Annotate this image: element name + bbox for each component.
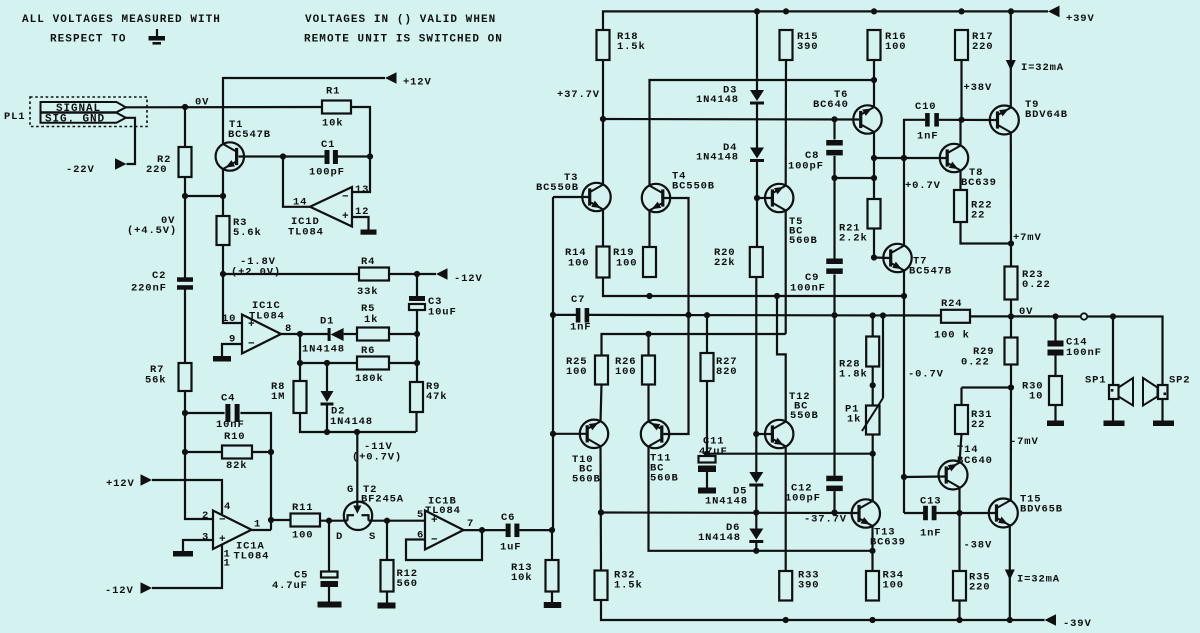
wire R31 to T14 [960, 434, 962, 463]
resistor R30 10 [1022, 376, 1062, 405]
wire C8 row to T6 coll rail [835, 177, 875, 179]
resistor R34 100 [866, 570, 904, 601]
svg-text:−: − [248, 338, 255, 350]
resistor R9 47k [410, 381, 447, 412]
node rail/T9 [1008, 8, 1014, 14]
wire T8 emitter to R22 [959, 170, 961, 190]
diode D6 1N4148 [698, 522, 763, 544]
resistor R18 1.5k [597, 30, 646, 60]
svg-text:S: S [369, 531, 376, 543]
node R22 / output rail [1008, 240, 1014, 246]
ground (C5) [318, 602, 342, 608]
ground (SP2) [1153, 421, 1174, 427]
wire R1 right drop [351, 107, 370, 192]
svg-text:1.8k: 1.8k [839, 369, 868, 381]
ground (IC1D pin12) [361, 230, 377, 235]
wire IC1A output [252, 529, 272, 531]
resistor R19 100 [613, 247, 656, 277]
svg-text:100pF: 100pF [785, 493, 821, 505]
node rail/R16 [871, 8, 877, 14]
node R28 top [870, 312, 876, 318]
svg-text:1N4148: 1N4148 [698, 532, 741, 544]
svg-text:1nF: 1nF [570, 322, 591, 334]
wire R18 bottom to +37.7V node [602, 60, 604, 119]
svg-text:+37.7V: +37.7V [557, 89, 600, 101]
supply arrow +12V (IC1A) [106, 474, 152, 490]
wire C5 rail [328, 521, 330, 572]
wire P1 bottom [872, 435, 874, 454]
svg-text:100nF: 100nF [1066, 347, 1102, 359]
node T14 coll / T15 base / C13 [956, 510, 962, 516]
wire R29 bottom rail [1010, 365, 1012, 388]
svg-text:+12V: +12V [106, 478, 135, 490]
wire T9 emitter up [1010, 11, 1012, 107]
transistor T10 BC560B [572, 420, 608, 486]
wire T13 base row [601, 511, 858, 514]
svg-text:1uF: 1uF [500, 542, 521, 554]
svg-text:-0.7V: -0.7V [908, 369, 944, 381]
svg-text:100: 100 [566, 366, 587, 378]
node rail/R17 [958, 8, 964, 14]
wire C10 row to T6 [874, 157, 904, 159]
ground (R30) [1047, 421, 1064, 427]
node C1 right [367, 153, 373, 159]
svg-text:2: 2 [202, 510, 209, 522]
wire SIG.GND drop to -22V [126, 118, 135, 164]
wire IC1D output to T1 base [283, 157, 310, 207]
svg-text:1N4148: 1N4148 [696, 152, 739, 164]
wire R12 rail [386, 521, 388, 560]
node rail/T15 [1007, 617, 1013, 623]
wire IC1C pin10 drop [223, 274, 242, 323]
wire T3 collector [602, 119, 604, 185]
svg-text:1: 1 [254, 519, 261, 531]
node T1 emitter / R3 [220, 193, 226, 199]
svg-text:100: 100 [615, 366, 636, 378]
svg-text:820: 820 [716, 366, 737, 378]
resistor R5 1k [357, 303, 389, 341]
svg-text:22k: 22k [714, 257, 735, 269]
node -11V tap [354, 429, 360, 435]
wire R9 bottom corner [415, 412, 417, 432]
capacitor C6 1uF [500, 512, 521, 554]
svg-text:+12V: +12V [403, 77, 432, 89]
node T7 emitter / T14 base [901, 474, 907, 480]
node bias row / R27 rail [704, 451, 710, 457]
svg-text:R4: R4 [361, 256, 375, 268]
wire C11 to ground [706, 472, 708, 488]
resistor R11 100 [291, 502, 321, 542]
svg-text:R10: R10 [224, 431, 245, 443]
svg-text:2.2k: 2.2k [839, 233, 868, 245]
svg-text:10: 10 [222, 313, 236, 325]
ground (R12) [378, 603, 396, 609]
svg-text:560: 560 [397, 578, 418, 590]
svg-text:220nF: 220nF [131, 283, 167, 295]
wire IC1B output to C6 [464, 529, 506, 531]
wire R28 bottom [872, 367, 874, 406]
capacitor C11 47uF [698, 436, 728, 473]
node rail/R15 [783, 8, 789, 14]
ground symbol (note) [149, 29, 166, 45]
wire D5 rail [755, 434, 757, 472]
diode D1 1N4148 [302, 316, 345, 356]
svg-text:BC547B: BC547B [909, 266, 952, 278]
node R27 top [704, 312, 710, 318]
node R10 row left [182, 449, 188, 455]
svg-text:4.7uF: 4.7uF [272, 580, 308, 592]
wire C2 to R7 [184, 290, 186, 364]
svg-text:3: 3 [202, 532, 209, 544]
svg-text:100: 100 [292, 530, 313, 542]
resistor R33 390 [779, 570, 819, 601]
node R31 row / output rail [1008, 384, 1014, 390]
transistor T3 BC550B [536, 172, 611, 211]
transistor T14 BC640 [939, 444, 993, 490]
node R16 bottom / T6 emitter [871, 77, 877, 83]
wire R13 to ground [551, 592, 553, 603]
svg-text:-12V: -12V [105, 585, 134, 597]
svg-text:390: 390 [797, 41, 818, 53]
supply arrow +12V (T1) [385, 72, 432, 88]
wire R2 bottom to 0V(+4.5V) node [184, 177, 186, 196]
svg-text:VOLTAGES IN () VALID WHEN: VOLTAGES IN () VALID WHEN [305, 14, 496, 26]
supply arrow +39V [1048, 6, 1095, 25]
supply arrow -22V [66, 158, 127, 176]
diode D2 1N4148 [321, 391, 373, 428]
wire IC1C output [281, 333, 328, 335]
wire T3 emitter to R14 [602, 209, 604, 246]
wire 0V node row to T1 emitter [185, 195, 223, 197]
wire T8 base row [904, 157, 946, 159]
diode D3 1N4148 [696, 85, 764, 107]
wire R23 to 0V node [1010, 300, 1012, 317]
current arrow I=32mA (top) [1006, 60, 1064, 74]
svg-text:56k: 56k [145, 375, 166, 387]
node R28 / P1 [870, 382, 876, 388]
svg-text:100pF: 100pF [309, 167, 345, 179]
connector PL1 dashed box [30, 97, 147, 127]
svg-text:(+2.0V): (+2.0V) [231, 267, 281, 279]
resistor R31 22 [955, 405, 992, 434]
wire fb row left [553, 314, 576, 316]
svg-text:1nF: 1nF [917, 131, 938, 143]
wire D5 bottom [755, 486, 757, 513]
resistor R26 100 [615, 356, 655, 385]
wire R3 bottom to -1.8V node [222, 245, 224, 274]
resistor R20 22k [714, 247, 763, 277]
node T6 coll / C10 row [871, 155, 877, 161]
svg-text:220: 220 [969, 582, 990, 594]
wire C3 rail bottom [416, 310, 418, 382]
node R2/C2 junction [182, 193, 188, 199]
resistor R32 1.5k [595, 570, 643, 601]
node C4 row left [182, 410, 188, 416]
node R6 row left [297, 360, 303, 366]
node 0V output [1008, 313, 1014, 319]
svg-text:BC550B: BC550B [672, 181, 715, 193]
wire C13 left [904, 512, 924, 514]
capacitor C1 100pF [309, 139, 345, 179]
resistor R3 5.6k [217, 216, 262, 245]
wire T8 collector [959, 120, 961, 146]
node R26 top [645, 331, 651, 337]
capacitor C5 4.7uF [272, 570, 338, 593]
node T2 drain / C5 [326, 518, 332, 524]
svg-text:+0.7V: +0.7V [905, 180, 941, 192]
wire R5 right [389, 333, 417, 335]
svg-text:10: 10 [1029, 391, 1043, 403]
svg-text:(+4.5V): (+4.5V) [127, 225, 177, 237]
wire R35 to bottom rail [958, 601, 960, 621]
wire R6 row [300, 362, 357, 364]
wire SP1 drop [1112, 317, 1114, 386]
node T3 base rail / fb row [550, 312, 556, 318]
svg-text:220: 220 [146, 164, 167, 176]
node C8 bottom row [871, 175, 877, 181]
wire T4/T11 base rail [664, 315, 689, 434]
node C6 / R13 / T3 base rail [549, 527, 555, 533]
svg-text:390: 390 [798, 580, 819, 592]
svg-text:1k: 1k [364, 314, 378, 326]
wire T4 collector to T6 emitter row [650, 80, 875, 186]
wire T7 emitter rail [903, 271, 905, 513]
transistor T1 BC547B [216, 119, 271, 171]
node T8 base row joint [901, 155, 907, 161]
capacitor C10 1nF [915, 101, 939, 143]
wire R20 bottom to T12 base rail [755, 277, 757, 434]
wire SP1 to ground [1112, 399, 1114, 421]
svg-text:BC639: BC639 [961, 177, 997, 189]
capacitor C13 1nF [920, 496, 941, 540]
svg-text:BC640: BC640 [957, 455, 993, 467]
wire C3 rail top [416, 274, 418, 296]
wire D2 anode [326, 363, 328, 391]
wire T5 collector to tail row [785, 210, 787, 334]
wire T4 base [663, 198, 689, 315]
ground (SP1) [1104, 421, 1125, 427]
wire C14 top [1054, 317, 1056, 341]
svg-text:560B: 560B [789, 235, 818, 247]
svg-text:SIG. GND: SIG. GND [45, 114, 105, 126]
node rail/R33 [783, 617, 789, 623]
wire T12 collector jog [777, 296, 786, 422]
svg-text:22: 22 [971, 419, 985, 431]
node T12 collector top [774, 293, 780, 299]
wire output rail to T15 collector [1010, 388, 1012, 501]
capacitor C2 220nF [131, 270, 193, 295]
svg-text:1N4148: 1N4148 [302, 344, 345, 356]
wire fb row [589, 314, 941, 317]
svg-text:R6: R6 [361, 345, 375, 357]
speaker SP1 [1085, 375, 1133, 406]
wire R30 to ground [1054, 405, 1056, 421]
svg-text:C13: C13 [920, 496, 941, 508]
wire T7 base stub [874, 256, 891, 259]
svg-text:0V: 0V [195, 97, 209, 109]
wire T3 base rail down [552, 197, 554, 315]
svg-text:+7mV: +7mV [1013, 232, 1042, 244]
svg-text:100pF: 100pF [788, 161, 824, 173]
node R21 / T7 base [871, 254, 877, 260]
ground (IC1A pin3) [173, 551, 193, 557]
diode D5 1N4148 [705, 472, 763, 508]
svg-text:R11: R11 [292, 502, 313, 514]
svg-text:-39V: -39V [1063, 618, 1092, 630]
node C10 / T7 collector [901, 155, 907, 161]
node SP1 top [1110, 313, 1116, 319]
svg-text:+: + [219, 534, 226, 546]
capacitor C4 10nF [216, 393, 245, 432]
svg-text:C2: C2 [152, 270, 166, 282]
ground (C11) [698, 488, 716, 494]
svg-text:33k: 33k [357, 286, 378, 298]
wire P1 wiper [882, 316, 884, 399]
wire T15 collector [1010, 500, 1011, 502]
svg-text:−: − [431, 534, 438, 546]
node C10 / +38V rail [958, 117, 964, 123]
op-amp IC1B TL084 [417, 496, 474, 550]
op-amp IC1C TL084 [222, 300, 292, 354]
resistor R16 100 [868, 30, 907, 60]
wire R4 to -12V arrow [389, 273, 436, 275]
diode D4 1N4148 [696, 142, 764, 164]
wire C4 row left [185, 412, 225, 414]
node R10 right [268, 449, 274, 455]
svg-text:TL084: TL084 [288, 227, 324, 239]
svg-text:D1: D1 [320, 316, 334, 328]
op-amp IC1D TL084 [288, 184, 369, 239]
node IC1A out / R11 [268, 517, 274, 523]
node T5 base / R20 [754, 195, 760, 201]
wire R8/R6 branch drop [299, 334, 301, 363]
node T1 base / C1 / IC1D out [280, 153, 286, 159]
wire D1 to R5 [344, 333, 357, 335]
wire 0V row to C14 [1011, 315, 1081, 317]
potentiometer P1 1k [845, 398, 883, 435]
resistor R24 100k [934, 298, 970, 342]
node rail/R34 [869, 617, 875, 623]
svg-text:5: 5 [417, 509, 424, 521]
wire D4 to T5 base node [756, 162, 758, 248]
svg-text:RESPECT TO: RESPECT TO [50, 34, 127, 46]
wire R7 bottom rail to IC1A pin2 [185, 391, 213, 519]
wire -38V rail to R35 [958, 513, 960, 571]
wire T12 emitter rail [785, 446, 787, 571]
node P1 bottom / bias row [870, 451, 876, 457]
wire R31 rail [960, 388, 962, 406]
svg-text:22: 22 [971, 210, 985, 222]
wire R3 rail [222, 196, 224, 216]
node IC1B out feedback [479, 527, 485, 533]
node T10 base row [550, 431, 556, 437]
svg-text:R24: R24 [941, 298, 962, 310]
node T13 emitter row [869, 548, 875, 554]
resistor R23 0.22 [1005, 267, 1051, 300]
capacitor C8 100pF [788, 140, 843, 173]
resistor R25 100 [566, 356, 608, 385]
svg-text:100: 100 [885, 41, 906, 53]
resistor R8 1M [271, 381, 307, 413]
transistor T11 BC560B [641, 420, 679, 485]
wire +39V top rail [603, 11, 1048, 30]
svg-text:1M: 1M [271, 391, 285, 403]
svg-text:I=32mA: I=32mA [1021, 62, 1064, 74]
transistor T2 BF245A (JFET) [336, 484, 404, 543]
svg-text:BC547B: BC547B [228, 129, 271, 141]
svg-text:+: + [342, 211, 349, 223]
resistor R35 220 [953, 571, 990, 601]
node T12 base / diode rail [753, 431, 759, 437]
connector pin SIGNAL [41, 102, 126, 115]
svg-text:47uF: 47uF [699, 446, 728, 458]
svg-text:82k: 82k [226, 460, 247, 472]
node P1 wiper top [880, 312, 886, 318]
svg-text:REMOTE UNIT IS SWITCHED ON: REMOTE UNIT IS SWITCHED ON [304, 34, 503, 46]
wire T1 collector to +12V [223, 78, 385, 144]
transistor T7 BC547B [883, 244, 952, 278]
resistor R29 0.22 [973, 338, 1018, 365]
wire R28 top [872, 316, 874, 337]
svg-text:100: 100 [616, 258, 637, 270]
wire T4 emitter to R19 [648, 210, 650, 247]
svg-text:1k: 1k [847, 414, 861, 426]
wire C11 rail [706, 381, 708, 456]
transistor T6 BC640 [813, 89, 882, 134]
wire D3-D4 link [756, 104, 758, 148]
resistor R1 10k [322, 86, 351, 130]
resistor R12 560 [381, 560, 418, 592]
wire R13 rail [551, 530, 553, 560]
wire T6 base row [603, 118, 859, 121]
wire T15 base row [960, 512, 997, 514]
node D6 bottom row [753, 548, 759, 554]
wire D6 link [755, 513, 757, 529]
svg-text:-7mV: -7mV [1010, 436, 1039, 448]
wire T10 base row [553, 433, 587, 435]
resistor R10 82k [222, 431, 252, 472]
node T7 emitter row [901, 293, 907, 299]
svg-text:1.5k: 1.5k [614, 580, 643, 592]
transistor T5 BC560B [765, 184, 818, 247]
svg-text:100: 100 [883, 580, 904, 592]
svg-text:BDV65B: BDV65B [1020, 504, 1063, 516]
svg-text:SP1: SP1 [1085, 375, 1106, 387]
wire P1 to T13 collector [872, 454, 874, 502]
resistor R6 180k [355, 345, 389, 385]
svg-text:1N4148: 1N4148 [696, 94, 739, 106]
wire tail row T3/T4 [603, 278, 904, 297]
capacitor C14 100nF [1048, 337, 1102, 360]
wire C5 to ground [328, 587, 330, 602]
wire R10 row left [185, 451, 222, 453]
resistor R22 22 [954, 190, 992, 222]
wire T2 source row to IC1B pin5 [370, 520, 425, 522]
transistor T9 BDV64B [990, 99, 1068, 135]
wire C12 bottom [833, 491, 835, 512]
wire C10 left [904, 120, 925, 246]
wire T10 collector rail [599, 446, 602, 571]
wire R17 bottom (+38V) [960, 60, 962, 120]
capacitor C12 100pF [785, 476, 843, 505]
svg-text:BC640: BC640 [813, 99, 849, 111]
svg-text:(+0.7V): (+0.7V) [352, 452, 402, 464]
svg-text:100 k: 100 k [934, 330, 970, 342]
node C9 / fb row [831, 312, 837, 318]
wire T9 collector down [1010, 132, 1012, 243]
svg-text:1nF: 1nF [920, 528, 941, 540]
wire T1 base row [239, 155, 325, 157]
